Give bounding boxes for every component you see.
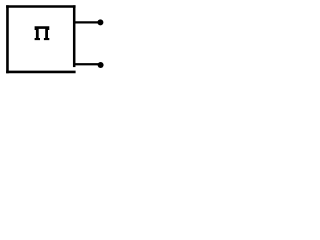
wire: box right edge (stops below lower output) (73, 5, 76, 67)
label П (block designator, serif bold glyph drawn as path) (35, 26, 50, 40)
node: lower output terminal dot (98, 62, 104, 68)
node: upper output terminal dot (97, 19, 103, 25)
wire: box bottom edge (6, 71, 76, 74)
wire: box left edge (6, 5, 9, 73)
wire: lower output lead (73, 63, 101, 65)
wire: upper output lead (73, 21, 100, 23)
block U1 (pulse source "П") box outline (6, 5, 76, 73)
wire: box top edge (6, 5, 76, 8)
